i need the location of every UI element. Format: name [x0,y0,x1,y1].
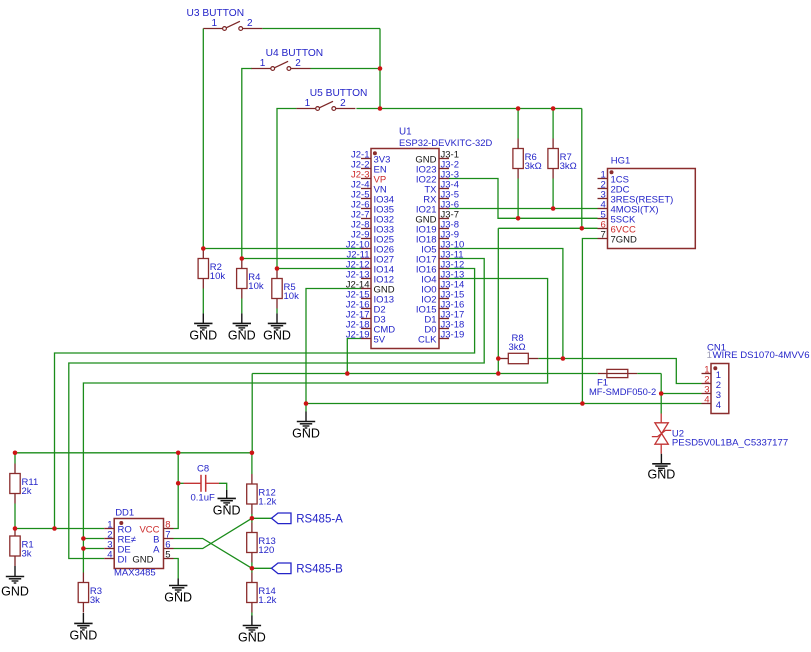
svg-text:PESD5V0L1BA_C5337177: PESD5V0L1BA_C5337177 [672,437,788,448]
svg-text:3kΩ: 3kΩ [560,161,577,172]
ground [213,490,241,517]
svg-text:WIRE DS1070-4MVV6: WIRE DS1070-4MVV6 [713,350,810,361]
svg-text:2: 2 [340,98,346,109]
svg-text:3kΩ: 3kΩ [509,342,526,353]
svg-text:0.1uF: 0.1uF [191,492,215,503]
ground [228,313,256,342]
resistor R7 (3kΩ) [548,139,577,179]
svg-text:GND: GND [648,467,676,481]
svg-text:2k: 2k [22,486,32,497]
IC DD1 MAX3485 [104,507,173,578]
svg-text:RS485-A: RS485-A [296,514,343,526]
svg-text:2: 2 [247,18,253,29]
ground [70,613,98,642]
resistor R2 (10k) [198,249,225,289]
svg-text:1: 1 [212,18,218,29]
resistor R1 (3k) [10,526,34,566]
svg-text:4: 4 [704,394,709,405]
svg-text:3kΩ: 3kΩ [525,161,542,172]
wire DE stub [83,548,104,550]
wire U3 pin1 down to R2 [202,29,204,249]
ground [238,616,266,645]
net flag RS485-A [272,513,344,526]
wire ESP32 5V pin down [347,339,361,374]
wire R14 bottom [251,613,253,616]
svg-text:10k: 10k [284,291,300,302]
resistor R8 (3kOhm) [498,333,538,364]
svg-text:GND: GND [164,591,192,605]
svg-text:4: 4 [716,400,721,411]
ground [1,566,29,599]
wire 5V down to MAX3485 rail [251,374,253,453]
wire VCC top rail [380,108,582,110]
wire ground bus [306,403,702,405]
wire R12 bottom to node A [251,514,253,518]
wire DD1 VCC pin up [174,453,179,529]
wire node IO14 [277,268,361,270]
ground [648,454,676,482]
svg-text:GND: GND [70,628,98,642]
svg-text:CLK: CLK [418,334,437,345]
wire IO22 to HG1 SCK [449,179,598,219]
net flag RS485-B [272,563,344,576]
ground [189,313,217,342]
wire R11 to R1 node [14,504,16,527]
svg-text:ESP32-DEVKITC-32D: ESP32-DEVKITC-32D [399,137,492,148]
wire RO line [15,528,104,530]
svg-text:RS485-B: RS485-B [296,564,343,576]
wire ESP32 GND pin to ground bus [306,289,361,404]
wire R6 bottom [517,179,519,219]
svg-text:1: 1 [707,350,712,361]
fuse F1 MF-SMDF050-2 [589,369,656,397]
connector HG1 [598,156,696,249]
wire A crossover [174,518,252,548]
svg-text:C8: C8 [197,463,209,474]
capacitor C8 (0.1uF) [184,463,220,503]
resistor R12 (1.2k) [247,474,277,514]
wire R14 top [251,568,253,572]
svg-text:10k: 10k [210,271,226,282]
wire R4 bottom [241,299,243,314]
wire R7 top [552,109,554,139]
svg-text:DD1: DD1 [115,507,134,518]
resistor R11 (2k) [10,464,38,504]
wire R7 bottom [552,179,554,209]
wire 5V line right of fuse [637,373,661,375]
wire U4 pin2 to node [311,68,381,70]
wire R6 top [517,109,519,139]
svg-text:HG1: HG1 [611,156,631,167]
resistor R4 (10k) [237,259,264,299]
svg-text:GND: GND [238,631,266,645]
wire RE# stub [83,538,104,540]
wire VCC to HG1 pin6 [498,227,597,229]
resistor R6 (3kΩ) [513,139,542,179]
svg-text:4: 4 [107,549,112,560]
svg-text:1.2k: 1.2k [258,497,276,508]
svg-text:1: 1 [305,98,311,109]
resistor R5 (10k) [272,269,299,309]
ground [263,313,291,342]
svg-text:J3-19: J3-19 [441,329,465,340]
wire 5V to CN1 pin3 node [660,374,662,394]
wire IO21 to HG1 MOSI [449,208,598,210]
wire IO16 down to RO line [55,269,475,529]
wire node to TVS U2 [660,394,662,414]
wire VCC rail to DD1 [15,452,252,454]
svg-text:GND: GND [263,328,291,342]
TVS diode U2 PESD5V0L1BA_C5337177 [652,414,788,454]
wire U3 pin2 to node [262,28,380,30]
svg-text:3k: 3k [22,549,32,560]
svg-text:J2-19: J2-19 [346,329,370,340]
svg-text:GND: GND [1,585,29,599]
svg-text:DI: DI [118,554,128,565]
svg-text:1: 1 [260,58,266,69]
wire U5 pin2 to node [356,108,380,110]
wire C8 right to ground [219,483,227,490]
svg-text:GND: GND [292,427,320,441]
wire B crossover [174,539,252,569]
svg-text:GND: GND [189,328,217,342]
svg-text:GND: GND [228,328,256,342]
pushbutton U3 [187,8,263,30]
svg-text:120: 120 [258,545,274,556]
svg-text:5: 5 [165,549,170,560]
wire VCC right vertical [581,109,583,229]
svg-text:5V: 5V [374,334,386,345]
svg-text:GND: GND [213,503,241,517]
svg-text:10k: 10k [248,281,264,292]
wire R8 right to CN1 pin2 [538,359,701,384]
svg-text:GND: GND [132,554,153,565]
resistor R13 (120) [247,523,276,563]
resistor R3 (3k) [78,573,102,613]
wire node IO26 [203,248,361,250]
svg-text:7: 7 [601,229,606,240]
svg-text:U5 BUTTON: U5 BUTTON [310,88,368,99]
svg-text:A: A [153,544,160,555]
wire HG1 GND to ground bus [582,239,597,404]
svg-text:7GND: 7GND [611,234,638,245]
wire R11 top [14,453,16,464]
wire 5V line [252,373,598,375]
wire DD1 GND pin [174,559,179,579]
wire IO4 to RE/DE [83,279,547,573]
svg-text:1.2k: 1.2k [258,595,276,606]
wire R5 bottom [276,309,278,314]
wire node IO27 [242,258,361,260]
wire U4 pin1 down to R4 [242,69,252,259]
IC U1 ESP32-DEVKITC-32D [346,127,493,349]
wire R12 top [251,453,253,474]
wire C8 left [178,482,183,484]
wire R13 top [251,518,253,522]
pushbutton U4 [252,48,324,70]
wire IO17 to DI [69,259,484,559]
wire node B to flag [252,567,272,569]
wire button bus vertical [379,29,381,109]
svg-text:2: 2 [295,58,301,69]
resistor R14 (1.2k) [247,573,277,613]
pushbutton U5 [296,88,367,110]
wire node A to flag [252,517,272,519]
svg-text:3k: 3k [90,595,100,606]
wire VCC vertical to 5V line [497,228,499,373]
wire U5 pin1 down to R5 [277,109,296,269]
ground [164,579,192,605]
wire R2 bottom [202,289,204,314]
svg-text:MF-SMDF050-2: MF-SMDF050-2 [589,386,656,397]
connector CN1 WIRE DS1070-4MVV6 [702,342,810,413]
wire IO5 to R8 node [449,249,563,359]
wire R13 bottom [251,563,253,569]
svg-text:MAX3485: MAX3485 [114,568,156,579]
ground [292,404,320,441]
wire CN1 pin3 [661,393,701,395]
wire junctions [13,66,664,570]
